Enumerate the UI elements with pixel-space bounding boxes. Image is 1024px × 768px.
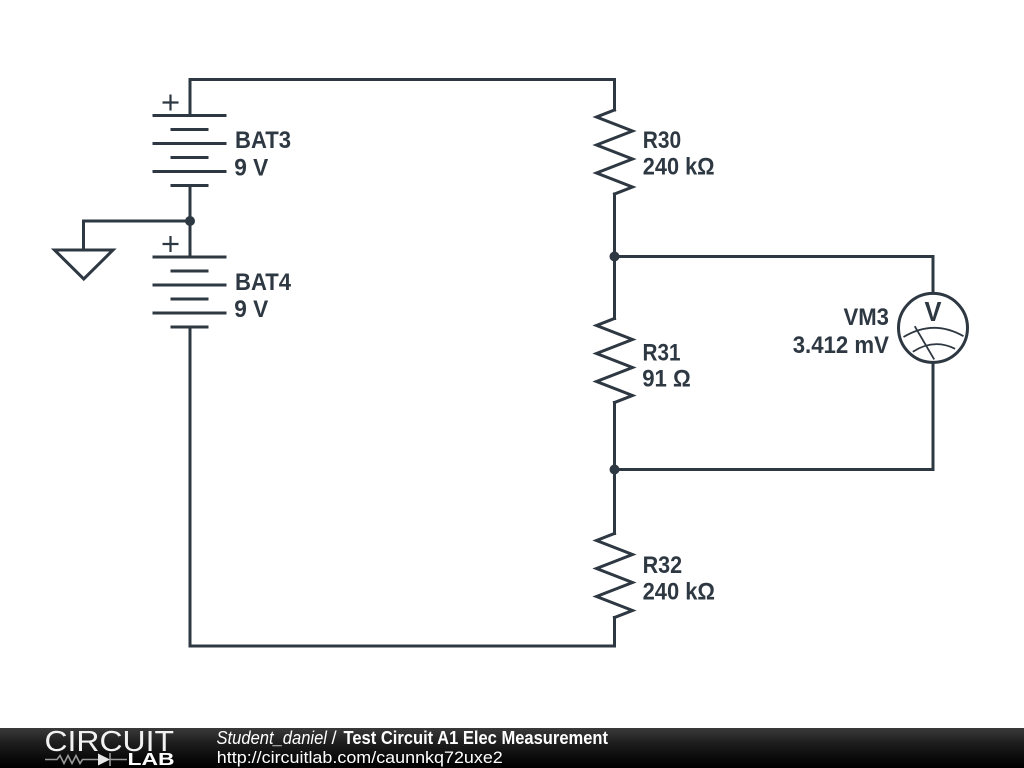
svg-text:R32: R32: [643, 552, 683, 579]
svg-text:LAB: LAB: [128, 749, 175, 768]
svg-text:240 kΩ: 240 kΩ: [643, 578, 715, 605]
svg-text:VM3: VM3: [844, 304, 890, 331]
svg-text:R30: R30: [643, 127, 681, 154]
svg-text:R31: R31: [643, 340, 681, 367]
svg-text:9 V: 9 V: [234, 296, 268, 323]
svg-text:9 V: 9 V: [234, 154, 268, 181]
svg-text:3.412 mV: 3.412 mV: [793, 332, 889, 359]
svg-text:BAT4: BAT4: [235, 269, 292, 296]
svg-text:BAT3: BAT3: [235, 127, 291, 154]
svg-text:Test Circuit A1 Elec Measureme: Test Circuit A1 Elec Measurement: [344, 727, 609, 748]
svg-text:http://circuitlab.com/caunnkq7: http://circuitlab.com/caunnkq72uxe2: [217, 749, 503, 767]
svg-text:V: V: [925, 296, 942, 327]
svg-text:/: /: [332, 727, 338, 748]
svg-text:240 kΩ: 240 kΩ: [643, 153, 715, 180]
svg-text:Student_daniel: Student_daniel: [217, 727, 328, 748]
svg-text:91 Ω: 91 Ω: [642, 366, 691, 393]
